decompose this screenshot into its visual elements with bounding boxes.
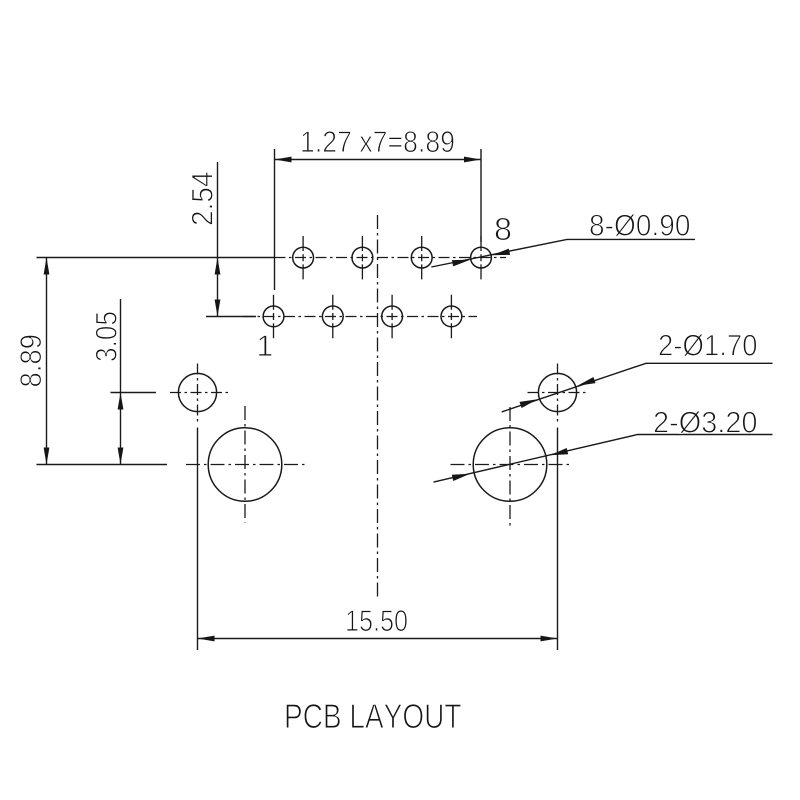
dimension 3.05 extension line: [120, 299, 122, 393]
dimension text 2.54: [192, 172, 213, 224]
dimension 3.05 tick: [111, 392, 157, 394]
dimension 2.54 bottom tick: [206, 316, 256, 318]
hole pin1 row2: [263, 295, 284, 339]
dimension 15.50 extension line left: [197, 428, 199, 651]
hole row2 b: [322, 295, 343, 339]
hole row1 d: [293, 236, 314, 280]
dimension 1.27x7 line: [275, 157, 482, 163]
leader text 8-dia0.90: [590, 214, 689, 236]
leader text 2-dia1.70: [659, 334, 756, 356]
dimension text 8.89: [20, 335, 41, 386]
hole 1.70 left: [170, 364, 228, 423]
title PCB LAYOUT: [286, 704, 461, 728]
dimension 8.89 vertical line: [44, 258, 50, 465]
dimension text 1.27x7=8.89: [302, 131, 454, 152]
reference line top-left horizontal: [37, 257, 275, 259]
dimension text 15.50: [347, 610, 407, 631]
dimension 2.54 arrow line: [215, 258, 221, 317]
hole pin8 row1: [471, 236, 492, 280]
centerline row 2 horizontal: [243, 316, 477, 318]
hole row1 b: [411, 236, 432, 280]
hole row2 c: [382, 295, 403, 339]
dimension 3.05 arrow line: [118, 393, 124, 465]
dimension 1.27x7 extension line left: [274, 149, 276, 290]
dimension 2.54 extension line: [217, 162, 219, 258]
reference line bottom-left horizontal: [37, 464, 168, 466]
label pin 1: [259, 335, 272, 356]
hole row1 c: [352, 236, 373, 280]
leader 8-dia0.90: [431, 239, 695, 267]
leader 2-dia1.70: [502, 363, 773, 412]
dimension 15.50 extension line right: [557, 428, 559, 651]
centerline central vertical: [377, 215, 379, 600]
dimension 1.27x7 extension line right: [480, 149, 482, 242]
hole row2 d: [441, 295, 462, 339]
dimension text 3.05: [96, 312, 117, 361]
leader 2-dia3.20: [434, 435, 773, 483]
centerline row 1 horizontal: [275, 257, 507, 259]
hole 3.20 left: [186, 406, 305, 523]
hole 3.20 right: [451, 407, 570, 527]
dimension 15.50 line: [198, 636, 558, 642]
leader text 2-dia3.20: [654, 411, 756, 433]
label pin 8: [495, 218, 510, 241]
hole 1.70 right: [528, 364, 587, 423]
